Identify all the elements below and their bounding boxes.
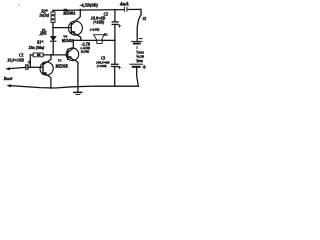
svg-text:1к(2к): 1к(2к) [39,14,49,18]
svg-text:Д9Б: Д9Б [39,32,47,36]
svg-text:(9В): (9В) [137,59,143,63]
svg-text:МП40А: МП40А [61,39,75,43]
svg-text:(-4,5В): (-4,5В) [90,28,100,32]
svg-text:Вход: Вход [3,76,12,81]
svg-text:R1*: R1* [37,40,43,44]
svg-text:33к (56к): 33к (56к) [28,45,45,50]
svg-text:(4,5В): (4,5В) [81,50,90,54]
svg-text:МП40А: МП40А [62,12,76,16]
svg-text:В1: В1 [103,32,108,36]
svg-text:S1: S1 [143,17,147,21]
svg-text:-4,5В(9В): -4,5В(9В) [80,2,99,7]
svg-text:GB1: GB1 [138,50,145,54]
svg-text:(×10В): (×10В) [97,64,107,68]
svg-text:(×10В): (×10В) [93,21,105,25]
svg-text:МП39Б: МП39Б [55,65,69,69]
svg-text:V4: V4 [63,34,67,38]
svg-text:V1: V1 [58,59,62,63]
svg-text:4мА: 4мА [119,3,129,8]
svg-text:10,0×10В: 10,0×10В [7,58,24,63]
